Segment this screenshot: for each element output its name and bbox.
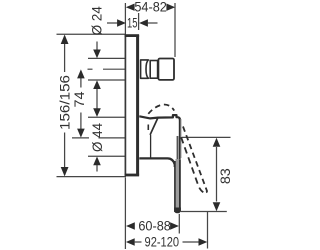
head right edge with gray shade xyxy=(180,119,182,158)
extension line up from plate left corner x=125.4 xyxy=(124,3,126,34)
extension line down from lever tip x=179.3 xyxy=(178,214,180,234)
extension line: connector bottom (O24 ref) y=80 xyxy=(88,79,126,81)
connector piece 2 (small cylinder) xyxy=(150,61,157,79)
arrow down onto escutcheon top (O44) xyxy=(93,108,101,117)
arrow left 60-88 xyxy=(126,222,135,229)
dashed raised-handle top arc xyxy=(148,104,174,113)
chin: bottom edge of head/escutcheon xyxy=(139,158,175,167)
extension line: escutcheon top (O44 ref) y=117.2 xyxy=(88,116,126,118)
svg-text:156/156: 156/156 xyxy=(56,75,72,130)
svg-text:83: 83 xyxy=(218,168,233,184)
svg-text:15: 15 xyxy=(127,16,138,31)
extension line up from connector end x=175 xyxy=(174,3,176,57)
arrow up 83 top xyxy=(213,138,221,147)
arrow down 74 bottom at handle axis xyxy=(77,129,85,138)
extension line: plate top (156 ref) y=34.2 xyxy=(57,33,127,35)
svg-text:74: 74 xyxy=(72,91,87,108)
dashed raised grip right edge xyxy=(183,127,207,193)
svg-text:Ø 44: Ø 44 xyxy=(90,122,105,152)
arrow left 92-120 xyxy=(126,238,135,245)
arrow right 60-88 xyxy=(170,222,179,229)
escutcheon front edge xyxy=(150,135,152,158)
wall plate (side view) xyxy=(125,35,140,176)
arrow up onto escutcheon bottom (O44) xyxy=(93,157,101,166)
extension line: plate bottom (156 ref) y=176.6 xyxy=(57,176,127,178)
svg-text:92-120: 92-120 xyxy=(145,234,180,249)
arrow up 156/156 top xyxy=(61,35,69,45)
head outline xyxy=(139,115,180,158)
handle body (escutcheon + lever head) xyxy=(139,115,181,167)
arrow right onto x=125.4 xyxy=(117,19,126,26)
extension line up from plate front x=138.5 xyxy=(138,13,140,30)
arrow down onto connector top xyxy=(93,50,101,59)
center line: handle axis y=137.8 xyxy=(72,137,89,139)
arrow up onto connector bottom xyxy=(93,80,101,89)
arrow down 83 bottom xyxy=(213,202,221,211)
dimension 15 row y=23 xyxy=(107,22,118,24)
arrow right 54-82 xyxy=(166,4,175,11)
arrow left onto x=138.6 xyxy=(139,19,148,26)
arrow left 54-82 xyxy=(126,4,135,11)
svg-text:60-88: 60-88 xyxy=(138,219,171,234)
dimension 83 column x=216.5 xyxy=(216,147,218,202)
head rear slant xyxy=(150,118,158,135)
extension line right: lever bottom y=212.4 xyxy=(181,211,227,213)
arrow down 156/156 bottom xyxy=(61,167,69,176)
connector piece 1 (olive) xyxy=(141,60,149,78)
dimension 156/156 vertical line x=64.6 xyxy=(64,36,66,175)
extension line down from plate left corner x=125.4 xyxy=(124,178,126,250)
dashed raised grip left edge xyxy=(181,137,203,192)
dimension O24 column x=97 xyxy=(96,42,98,172)
extension line: escutcheon bottom (O44 ref) y=156.2 xyxy=(88,155,126,157)
extension line: connector top (O24 ref) y=58.3 xyxy=(88,57,126,59)
svg-text:54-82: 54-82 xyxy=(134,0,167,15)
center line: connector axis y=69.2 xyxy=(88,68,93,70)
arrow right 92-120 xyxy=(199,238,208,245)
connector piece 3 (end nut, O24) xyxy=(158,59,174,80)
arrow up 74 top at connector axis xyxy=(77,69,85,78)
lever grip (pointing down) xyxy=(174,159,181,213)
dimension 74 column x=81 xyxy=(80,71,82,88)
extension line right: lever pivot y=137.3 xyxy=(182,136,231,138)
dashed raised head rear edge xyxy=(147,125,149,132)
extension line down from raised lever tip x=207.5 xyxy=(207,212,209,249)
svg-text:Ø 24: Ø 24 xyxy=(90,6,105,36)
